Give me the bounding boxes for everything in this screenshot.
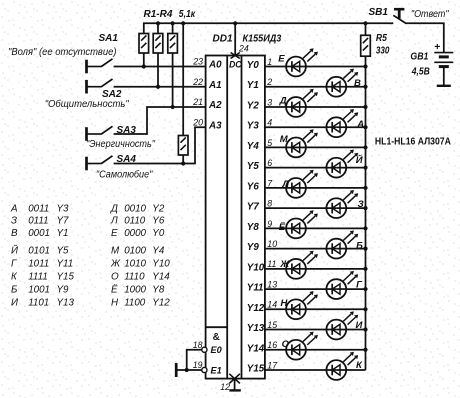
svg-text:SA1: SA1 — [99, 33, 119, 44]
svg-text:11: 11 — [267, 259, 276, 269]
label letter К — [356, 360, 363, 371]
svg-text:A3: A3 — [208, 120, 222, 131]
IC DD1 К155ИД3 body — [206, 56, 265, 379]
pin 15 label — [267, 320, 277, 330]
svg-text:Й: Й — [11, 244, 19, 256]
pin 18 label — [193, 340, 203, 350]
svg-text:Y2: Y2 — [247, 100, 260, 111]
svg-text:14: 14 — [267, 300, 277, 310]
svg-text:1100: 1100 — [124, 297, 146, 308]
label Энергичность — [86, 139, 155, 150]
svg-text:Г: Г — [11, 258, 17, 269]
label letter Б — [356, 240, 363, 251]
junction anode bus row 7 — [363, 206, 367, 210]
svg-text:Y5: Y5 — [247, 161, 260, 172]
svg-text:В: В — [354, 78, 361, 89]
pin 24 label — [238, 44, 249, 54]
pin 11 label — [267, 259, 276, 269]
label Y15 — [247, 363, 265, 374]
label letter И — [356, 320, 363, 331]
pin 6 label — [267, 158, 272, 168]
svg-text:21: 21 — [192, 97, 203, 107]
label DD1 — [213, 34, 233, 45]
svg-text:Л: Л — [282, 179, 290, 190]
svg-text:15: 15 — [267, 320, 277, 330]
svg-text:19: 19 — [193, 360, 203, 370]
pin 22 label — [192, 77, 203, 87]
svg-text:12: 12 — [220, 382, 230, 392]
junction anode bus row 14 — [363, 348, 367, 352]
wire output Y5 row — [265, 167, 366, 169]
svg-text:Д: Д — [279, 95, 287, 106]
svg-text:0001: 0001 — [28, 228, 50, 239]
resistor R1 — [139, 34, 149, 67]
switch SA4 — [87, 156, 113, 171]
LED HL2 — [326, 69, 358, 97]
pin 5 label — [267, 138, 272, 148]
svg-text:DD1: DD1 — [213, 34, 233, 45]
junction anode bus row 6 — [363, 186, 367, 190]
svg-text:А: А — [10, 204, 18, 215]
svg-text:0110: 0110 — [124, 216, 146, 227]
LED HL16 — [326, 352, 358, 380]
code table letters/addresses/outputs — [10, 204, 170, 309]
pin 13 label — [267, 279, 277, 289]
label 330 — [376, 46, 390, 57]
wire SA3 to pin 21 — [114, 107, 206, 134]
svg-text:Ё: Ё — [111, 284, 118, 295]
wire SA4 to pin 20 — [114, 127, 206, 163]
svg-text:10: 10 — [267, 239, 277, 249]
svg-text:"Энергичность": "Энергичность" — [86, 139, 155, 150]
label SA1 — [99, 33, 119, 44]
svg-text:Y0: Y0 — [152, 228, 165, 239]
svg-text:Y9: Y9 — [247, 242, 260, 253]
svg-text:0010: 0010 — [124, 204, 146, 215]
LED HL15 — [286, 332, 318, 360]
pin E1 inversion circle — [202, 367, 207, 372]
junction anode bus row 10 — [363, 267, 367, 271]
junction anode bus row 0 — [363, 64, 367, 68]
wire output Y15 row — [265, 369, 366, 371]
wire LED anode bus — [365, 57, 367, 370]
label letter О — [282, 339, 290, 350]
LED HL7 — [286, 170, 318, 198]
svg-text:13: 13 — [267, 279, 277, 289]
svg-text:Y10: Y10 — [247, 262, 265, 273]
svg-text:22: 22 — [192, 77, 203, 87]
resistor R5 — [361, 23, 371, 56]
svg-text:Y8: Y8 — [247, 222, 260, 233]
svg-text:A2: A2 — [208, 100, 222, 111]
label Самолюбие — [96, 170, 153, 181]
label Y0 — [247, 60, 260, 71]
label letter Н — [281, 298, 289, 309]
svg-text:SB1: SB1 — [369, 7, 389, 18]
label 4,5В — [411, 67, 430, 78]
svg-text:Y11: Y11 — [247, 283, 264, 294]
svg-text:И: И — [356, 320, 363, 331]
svg-text:"Самолюбие": "Самолюбие" — [96, 170, 153, 181]
common terminal bar (E0/E1) — [175, 363, 178, 377]
switch SA1 — [87, 59, 113, 74]
pin 9 label — [267, 219, 272, 229]
svg-text:Y8: Y8 — [152, 284, 165, 295]
pin 20 label — [192, 117, 203, 127]
svg-text:Y11: Y11 — [57, 258, 74, 269]
svg-text:Y13: Y13 — [247, 323, 265, 334]
svg-text:Д: Д — [110, 204, 118, 215]
svg-text:"Воля" (ее отсутствие): "Воля" (ее отсутствие) — [8, 47, 117, 58]
svg-text:GB1: GB1 — [410, 52, 428, 63]
svg-text:О: О — [282, 339, 290, 350]
common terminal bar (battery) — [437, 85, 451, 87]
svg-text:+: + — [434, 41, 440, 53]
pin 1 label — [267, 57, 272, 67]
label A0 — [208, 60, 222, 71]
label letter Д — [279, 95, 287, 106]
label letter В — [354, 78, 361, 89]
junction on bus at pin 24 — [233, 21, 237, 25]
svg-text:Б: Б — [356, 240, 363, 251]
junction anode bus row 5 — [363, 166, 367, 170]
label Y6 — [247, 181, 260, 192]
label letter М — [280, 134, 289, 145]
svg-text:1: 1 — [267, 57, 272, 67]
label Y4 — [247, 141, 260, 152]
svg-text:А: А — [356, 119, 364, 130]
svg-text:E0: E0 — [211, 345, 223, 355]
pin 12 X mark — [229, 374, 240, 384]
wire output Y7 row — [265, 207, 366, 209]
svg-text:Y3: Y3 — [247, 121, 260, 132]
label Y13 — [247, 323, 265, 334]
pin 12 wire and common bar — [229, 379, 240, 391]
wire output Y6 row — [265, 187, 366, 189]
svg-text:0011: 0011 — [28, 204, 49, 215]
wire output Y8 row — [265, 227, 366, 229]
junction on bus at R4 — [181, 21, 185, 25]
svg-text:DC: DC — [229, 59, 242, 70]
wire +supply bus — [144, 23, 393, 33]
LED HL5 — [286, 129, 318, 157]
wire output Y2 row — [265, 106, 366, 108]
wire output Y4 row — [265, 146, 366, 148]
svg-text:И: И — [11, 297, 19, 308]
svg-text:Y15: Y15 — [247, 363, 265, 374]
wire output Y3 row — [265, 126, 366, 128]
svg-text:Н: Н — [111, 297, 119, 308]
svg-text:Y14: Y14 — [247, 343, 265, 354]
LED HL4 — [326, 109, 358, 137]
LED HL12 — [326, 271, 358, 299]
svg-text:Y7: Y7 — [247, 202, 260, 213]
svg-text:330: 330 — [376, 46, 390, 57]
svg-text:Y14: Y14 — [152, 271, 170, 282]
switch SA2 — [87, 79, 113, 94]
svg-text:SA3: SA3 — [117, 125, 137, 136]
svg-text:В: В — [11, 228, 18, 239]
svg-text:З: З — [11, 216, 17, 227]
pin 4 label — [267, 118, 272, 128]
wire output Y13 row — [265, 329, 366, 331]
svg-text:SA4: SA4 — [117, 154, 137, 165]
svg-text:Y4: Y4 — [152, 245, 165, 256]
svg-text:Y6: Y6 — [247, 181, 260, 192]
resistor R4 — [178, 23, 188, 163]
wire output Y0 row — [265, 66, 366, 68]
svg-text:Y15: Y15 — [57, 271, 75, 282]
svg-text:Е: Е — [278, 53, 285, 64]
label Y5 — [247, 161, 260, 172]
LED HL1 — [286, 48, 318, 76]
pin 21 label — [192, 97, 203, 107]
svg-text:М: М — [280, 134, 289, 145]
LED HL3 — [286, 89, 318, 117]
svg-text:A0: A0 — [208, 60, 222, 71]
switch SA3 — [87, 126, 113, 141]
label Y14 — [247, 343, 265, 354]
junction R3 on A2 wire — [171, 105, 175, 109]
pin 14 label — [267, 300, 277, 310]
wire SA1 to pin 23 — [114, 66, 206, 68]
svg-text:Y7: Y7 — [57, 216, 70, 227]
label A3 — [208, 120, 222, 131]
LED HL11 — [286, 251, 318, 279]
wire output Y1 row — [265, 86, 366, 88]
junction R2 on A1 wire — [156, 85, 160, 89]
junction anode bus row 1 — [363, 85, 367, 89]
label Общительность — [45, 99, 129, 110]
junction anode bus row 4 — [363, 145, 367, 149]
svg-text:5,1к: 5,1к — [179, 9, 196, 20]
svg-text:23: 23 — [192, 57, 203, 67]
svg-text:1010: 1010 — [124, 258, 146, 269]
svg-text:R1-R4: R1-R4 — [144, 9, 173, 20]
label SA2 — [102, 89, 122, 100]
svg-text:E1: E1 — [211, 365, 222, 375]
svg-text:Y13: Y13 — [57, 297, 75, 308]
label GB1 — [410, 52, 428, 63]
pin 3 label — [267, 97, 272, 107]
svg-text:Y1: Y1 — [247, 80, 259, 91]
wire output Y12 row — [265, 308, 366, 310]
svg-text:1011: 1011 — [28, 258, 49, 269]
svg-text:Е: Е — [111, 228, 118, 239]
label HL1-HL16 АЛ307А — [375, 136, 451, 147]
svg-text:Ж: Ж — [110, 258, 121, 269]
svg-text:"Общительность": "Общительность" — [45, 99, 129, 110]
LED HL13 — [286, 291, 318, 319]
resistor R2 — [153, 23, 163, 86]
label letter Л — [282, 179, 290, 190]
svg-text:16: 16 — [267, 340, 277, 350]
svg-text:Y4: Y4 — [247, 141, 260, 152]
junction anode bus row 9 — [363, 246, 367, 250]
pin 16 label — [267, 340, 277, 350]
battery plus sign — [434, 41, 440, 53]
junction anode bus row 11 — [363, 287, 367, 291]
label letter З — [358, 199, 364, 210]
label A1 — [208, 80, 222, 91]
LED HL8 — [326, 190, 358, 218]
LED HL6 — [326, 150, 358, 178]
svg-text:"Ответ": "Ответ" — [411, 9, 449, 20]
pin 12 label — [220, 382, 230, 392]
svg-text:1001: 1001 — [28, 284, 50, 295]
label Y1 — [247, 80, 259, 91]
pin 24 X mark — [231, 53, 240, 59]
wire SA2 to pin 22 — [114, 86, 206, 88]
junction anode bus row 12 — [363, 307, 367, 311]
label Y12 — [247, 303, 265, 314]
svg-text:Y2: Y2 — [152, 204, 165, 215]
label Y3 — [247, 121, 260, 132]
svg-text:6: 6 — [267, 158, 272, 168]
svg-text:Y12: Y12 — [247, 303, 265, 314]
svg-text:Y6: Y6 — [152, 216, 165, 227]
pushbutton SB1 — [393, 9, 405, 23]
svg-text:HL1-HL16 АЛ307А: HL1-HL16 АЛ307А — [375, 136, 451, 147]
wire output Y9 row — [265, 248, 366, 250]
wire output Y11 row — [265, 288, 366, 290]
label Y7 — [247, 202, 260, 213]
svg-text:20: 20 — [192, 117, 203, 127]
label A2 — [208, 100, 222, 111]
svg-text:8: 8 — [267, 199, 272, 209]
label E0 — [211, 345, 223, 355]
junction R4 on SA4 wire — [181, 161, 185, 165]
pin 23 label — [192, 57, 203, 67]
svg-text:Y12: Y12 — [152, 297, 170, 308]
svg-text:4: 4 — [267, 118, 272, 128]
resistor R3 — [168, 23, 178, 107]
junction anode bus row 13 — [363, 327, 367, 331]
svg-text:0000: 0000 — [124, 228, 146, 239]
svg-text:0101: 0101 — [28, 245, 50, 256]
svg-text:Y9: Y9 — [57, 284, 70, 295]
svg-text:Б: Б — [11, 284, 18, 295]
wire output Y14 row — [265, 349, 366, 351]
svg-text:Y3: Y3 — [57, 204, 70, 215]
svg-text:Ё: Ё — [279, 222, 286, 233]
junction on bus at R2 — [156, 21, 160, 25]
junction on bus at R5 — [363, 21, 367, 25]
label Y9 — [247, 242, 260, 253]
label DC — [229, 59, 242, 70]
label Y10 — [247, 262, 265, 273]
label Ответ — [411, 9, 449, 20]
LED HL10 — [326, 230, 358, 258]
pin 2 label — [266, 77, 272, 87]
wire E0/E1 to common — [176, 350, 202, 370]
junction anode bus row 3 — [363, 125, 367, 129]
svg-text:1000: 1000 — [124, 284, 146, 295]
label SB1 — [369, 7, 389, 18]
svg-text:З: З — [358, 199, 364, 210]
pin 10 label — [267, 239, 277, 249]
svg-text:Y0: Y0 — [247, 60, 260, 71]
label letter Г — [356, 279, 363, 290]
battery GB1 — [434, 53, 453, 86]
svg-text:24: 24 — [238, 44, 249, 54]
label letter Й — [356, 154, 363, 166]
label 5,1к — [179, 9, 196, 20]
LED HL9 — [286, 210, 318, 238]
svg-text:1101: 1101 — [28, 297, 49, 308]
svg-text:Y10: Y10 — [152, 258, 170, 269]
svg-text:18: 18 — [193, 340, 203, 350]
svg-text:0111: 0111 — [28, 216, 48, 227]
svg-text:4,5В: 4,5В — [411, 67, 430, 78]
svg-text:Н: Н — [281, 298, 289, 309]
junction anode bus row 8 — [363, 226, 367, 230]
wire SB1 to battery — [405, 23, 444, 52]
label letter Ё — [279, 222, 286, 233]
label R5 — [376, 33, 387, 44]
svg-text:17: 17 — [267, 360, 278, 370]
svg-text:2: 2 — [266, 77, 272, 87]
pin 8 label — [267, 199, 272, 209]
junction R1 on A0 wire — [142, 64, 146, 68]
svg-text:Y5: Y5 — [57, 245, 70, 256]
label Воля — [8, 47, 117, 58]
pin 17 label — [267, 360, 278, 370]
label letter А — [356, 119, 364, 130]
junction on bus at R3 — [171, 21, 175, 25]
label R1-R4 — [144, 9, 173, 20]
wire output Y10 row — [265, 268, 366, 270]
label letter Е — [278, 53, 285, 64]
pin 19 label — [193, 360, 203, 370]
junction E0/E1 wire — [185, 368, 189, 372]
LED HL14 — [326, 311, 358, 339]
label Y2 — [247, 100, 260, 111]
label letter Ж — [279, 259, 290, 270]
svg-text:М: М — [111, 245, 120, 256]
svg-text:R5: R5 — [376, 33, 387, 44]
label & — [213, 332, 220, 343]
svg-text:0100: 0100 — [124, 245, 146, 256]
label Y8 — [247, 222, 260, 233]
svg-text:1111: 1111 — [28, 271, 48, 282]
svg-text:1110: 1110 — [124, 271, 145, 282]
label Y11 — [247, 283, 264, 294]
svg-text:Y1: Y1 — [57, 228, 69, 239]
label К155ИД3 — [243, 34, 282, 45]
label SA3 — [117, 125, 137, 136]
label SA4 — [117, 154, 137, 165]
pin 7 label — [267, 178, 273, 188]
svg-text:О: О — [111, 271, 119, 282]
svg-text:5: 5 — [267, 138, 272, 148]
pin 24 wire — [234, 23, 236, 55]
svg-text:Л: Л — [110, 216, 118, 227]
pin E0 inversion circle — [202, 347, 207, 352]
svg-text:9: 9 — [267, 219, 272, 229]
label E1 — [211, 365, 222, 375]
svg-text:A1: A1 — [208, 80, 222, 91]
svg-text:Й: Й — [356, 154, 363, 166]
svg-text:Ж: Ж — [279, 259, 290, 270]
svg-text:&: & — [213, 332, 220, 343]
junction anode bus row 2 — [363, 105, 367, 109]
svg-text:3: 3 — [267, 97, 272, 107]
